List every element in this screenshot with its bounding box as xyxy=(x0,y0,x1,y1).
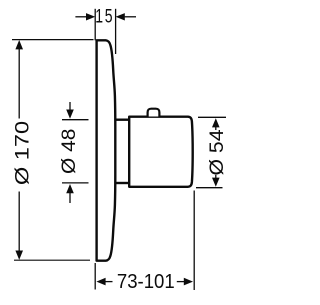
svg-text:Ø 54: Ø 54 xyxy=(207,129,228,175)
svg-text:Ø 48: Ø 48 xyxy=(59,129,80,174)
dim O54: top arrow (points up) xyxy=(215,127,217,130)
dim O54: top extension line xyxy=(198,116,226,118)
dim O48: top extension line xyxy=(62,119,89,121)
dim 73-101: left extension line xyxy=(94,263,96,290)
dim O48: bottom arrow (points up) xyxy=(69,193,71,204)
dim 15: right arrow xyxy=(125,16,136,18)
dim 73-101: right arrow (points right) xyxy=(177,281,185,283)
neck bottom line xyxy=(115,182,129,184)
dim 73-101: left arrow (points left) xyxy=(105,281,113,283)
dim O170: bottom extension line xyxy=(14,259,90,261)
neck (cartridge sleeve) top line xyxy=(115,118,129,120)
dim O54: bottom extension line xyxy=(196,187,223,189)
svg-text:73-101: 73-101 xyxy=(117,272,175,294)
dim O48: bottom extension line xyxy=(62,182,89,184)
safety button on handle top xyxy=(148,109,160,117)
dim O48: top arrow (points down) xyxy=(69,102,71,111)
handle body xyxy=(129,117,193,187)
escutcheon plate (side view) xyxy=(97,40,116,260)
dim 15: left arrow xyxy=(75,16,87,18)
dim O170: dimension line with arrows xyxy=(18,49,20,251)
dim 15: right extension line xyxy=(115,9,117,54)
dim 15: left extension line xyxy=(94,9,96,41)
svg-text:15: 15 xyxy=(95,5,114,27)
dim 73-101: right extension line xyxy=(193,191,195,291)
dim O54: bottom arrow (points down) xyxy=(215,175,217,178)
dim O170: top extension line xyxy=(12,39,94,41)
svg-text:Ø 170: Ø 170 xyxy=(11,121,32,185)
